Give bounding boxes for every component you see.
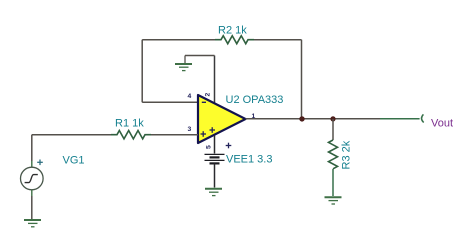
ground G1 stem	[184, 56, 186, 64]
ground G4	[325, 197, 342, 204]
svg-text:VG1: VG1	[63, 155, 85, 167]
VG1 plus mark	[37, 160, 43, 166]
wire R1 to pin3	[151, 134, 198, 136]
plus mark pin3	[201, 131, 207, 137]
svg-text:3: 3	[188, 126, 192, 133]
wire output	[246, 118, 381, 120]
svg-text:R2 1k: R2 1k	[218, 25, 247, 37]
output tag pin	[380, 118, 420, 120]
svg-text:4: 4	[188, 93, 192, 100]
plus mark pin5	[210, 127, 216, 133]
svg-text:VEE1 3.3: VEE1 3.3	[226, 154, 272, 166]
VG1 waveform glyph	[25, 175, 38, 183]
resistor R3	[329, 140, 338, 169]
wire input run	[32, 134, 111, 136]
junction node feedback	[299, 116, 304, 121]
wire VG1 bottom	[31, 196, 33, 219]
wire pin5 vertical	[214, 136, 216, 154]
wire pin4 horizontal	[142, 101, 198, 103]
op-amp U1 triangle	[198, 95, 246, 143]
svg-text:U2 OPA333: U2 OPA333	[226, 94, 284, 106]
wire R2 right	[254, 39, 302, 41]
wire R3 top	[332, 119, 334, 140]
svg-text:2: 2	[205, 93, 212, 97]
wire VG1 top	[31, 135, 33, 161]
wire R2 left	[142, 39, 215, 41]
ground G2	[24, 220, 41, 227]
resistor R1	[111, 131, 151, 139]
source VG1	[21, 135, 85, 227]
battery VEE1	[205, 154, 225, 163]
battery plus mark	[226, 143, 232, 149]
svg-text:5: 5	[206, 145, 213, 149]
VG1 top pin	[31, 161, 33, 167]
wire battery to ground	[214, 163, 216, 187]
svg-text:Vout: Vout	[431, 118, 453, 130]
wire feedback right vertical	[301, 40, 303, 119]
wire feedback left vertical	[141, 40, 143, 103]
svg-text:R1 1k: R1 1k	[115, 118, 144, 130]
output tag bracket	[422, 114, 424, 122]
wire pin2 horizontal	[185, 55, 215, 57]
VG1 bottom pin	[31, 190, 33, 196]
VG1 circle	[21, 167, 44, 190]
wire R3 bottom	[332, 169, 334, 196]
junction node R3	[330, 116, 335, 121]
minus mark pin4	[202, 101, 206, 103]
ground G3	[205, 189, 222, 196]
wire pin2 vertical	[214, 56, 216, 104]
svg-text:R3 2k: R3 2k	[341, 140, 353, 169]
ground G1	[175, 64, 192, 71]
resistor R2	[215, 36, 254, 44]
